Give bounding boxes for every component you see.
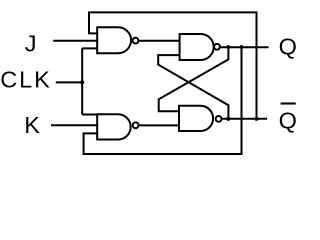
wire Q output <box>220 46 269 48</box>
bubble U2 <box>133 122 139 128</box>
wire cross coupling Q to U4 <box>159 47 229 111</box>
wire Qbar output <box>222 118 268 120</box>
svg-text:Q: Q <box>279 34 297 60</box>
wire cross coupling Qbar to U3 <box>158 55 228 119</box>
node Q junction A <box>226 45 230 49</box>
node Qbar junction B <box>254 117 258 121</box>
node Q junction B <box>239 45 243 49</box>
overline of Qbar <box>281 102 296 104</box>
svg-text:J: J <box>25 31 37 57</box>
svg-text:Q: Q <box>279 107 297 133</box>
bubble U4 <box>216 116 222 122</box>
node CLK junction <box>80 80 84 84</box>
wire feedback Q to U2 bottom input (bottom rail) <box>84 47 242 154</box>
nand U1 <box>97 27 131 53</box>
wire U2 output to U4 <box>139 124 180 126</box>
bubble U3 <box>214 44 220 50</box>
wire CLK input <box>56 81 82 83</box>
svg-text:K: K <box>24 112 40 138</box>
nand U2 <box>97 114 130 139</box>
nand U3 <box>180 34 214 60</box>
wire J input <box>53 40 97 42</box>
nand U4 <box>179 106 213 131</box>
wire U1 output to U3 <box>138 40 179 42</box>
bubble U1 <box>133 38 139 44</box>
wire feedback Qbar to U1 top input (top rail) <box>89 12 257 118</box>
wire K input <box>51 124 97 126</box>
node Qbar junction A <box>226 117 230 121</box>
wire CLK vertical with stubs to U1 and U2 <box>82 48 97 114</box>
svg-text:CLK: CLK <box>0 66 51 92</box>
